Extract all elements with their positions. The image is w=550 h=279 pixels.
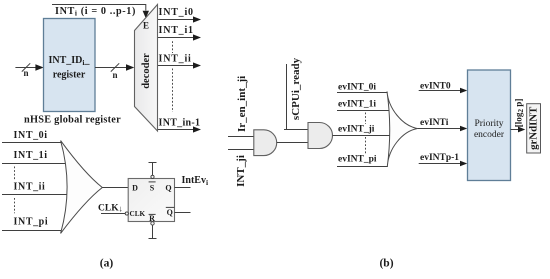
svg-text:R: R bbox=[149, 214, 155, 223]
svg-text:INT_0i: INT_0i bbox=[14, 130, 48, 141]
svg-text:encoder: encoder bbox=[474, 130, 505, 140]
svg-text:evINTp-1: evINTp-1 bbox=[420, 153, 459, 163]
svg-text:grNdINT: grNdINT bbox=[527, 106, 539, 150]
svg-text:D: D bbox=[132, 184, 138, 193]
svg-text:S: S bbox=[150, 184, 155, 193]
svg-text:n: n bbox=[113, 70, 118, 80]
svg-text:evINT0: evINT0 bbox=[420, 81, 451, 91]
svg-text:E: E bbox=[143, 21, 149, 31]
svg-text:evINT_0i: evINT_0i bbox=[338, 83, 376, 93]
svg-text:INT_i1: INT_i1 bbox=[159, 25, 194, 36]
svg-text:n: n bbox=[24, 68, 29, 78]
svg-text:Ir_en_int_ji: Ir_en_int_ji bbox=[236, 76, 248, 132]
svg-text:IntEvi: IntEvi bbox=[182, 175, 209, 187]
svg-text:↓: ↓ bbox=[119, 204, 123, 214]
svg-text:INT_ii: INT_ii bbox=[159, 53, 192, 64]
svg-text:register: register bbox=[53, 70, 86, 81]
svg-text:CLK: CLK bbox=[130, 210, 146, 218]
svg-text:evINT_1i: evINT_1i bbox=[338, 100, 376, 110]
svg-text:INT_i0: INT_i0 bbox=[159, 7, 194, 18]
svg-text:INT_pi: INT_pi bbox=[14, 216, 49, 227]
svg-text:nHSE global register: nHSE global register bbox=[24, 114, 121, 125]
svg-text:INT_in-1: INT_in-1 bbox=[159, 117, 201, 128]
svg-text:(a): (a) bbox=[100, 258, 114, 270]
svg-text:Q: Q bbox=[165, 184, 171, 193]
svg-text:CLK: CLK bbox=[98, 203, 119, 213]
svg-text:INT_IDi_: INT_IDi_ bbox=[49, 55, 91, 67]
svg-text:Priority: Priority bbox=[474, 119, 503, 129]
svg-text:[log2 p]: [log2 p] bbox=[513, 99, 525, 128]
svg-text:evINTi: evINTi bbox=[420, 118, 449, 128]
svg-text:INT_ji: INT_ji bbox=[235, 155, 247, 187]
svg-text:INT_ii: INT_ii bbox=[14, 181, 46, 192]
svg-text:(b): (b) bbox=[379, 258, 393, 270]
svg-text:evINT_ji: evINT_ji bbox=[338, 124, 375, 134]
svg-text:decoder: decoder bbox=[141, 53, 152, 89]
svg-text:sCPUi_ready: sCPUi_ready bbox=[290, 57, 302, 120]
svg-text:INTi (i = 0 ..p-1): INTi (i = 0 ..p-1) bbox=[55, 6, 136, 18]
svg-text:evINT_pi: evINT_pi bbox=[338, 154, 377, 164]
svg-text:INT_1i: INT_1i bbox=[14, 150, 48, 161]
svg-text:Q: Q bbox=[167, 208, 173, 217]
